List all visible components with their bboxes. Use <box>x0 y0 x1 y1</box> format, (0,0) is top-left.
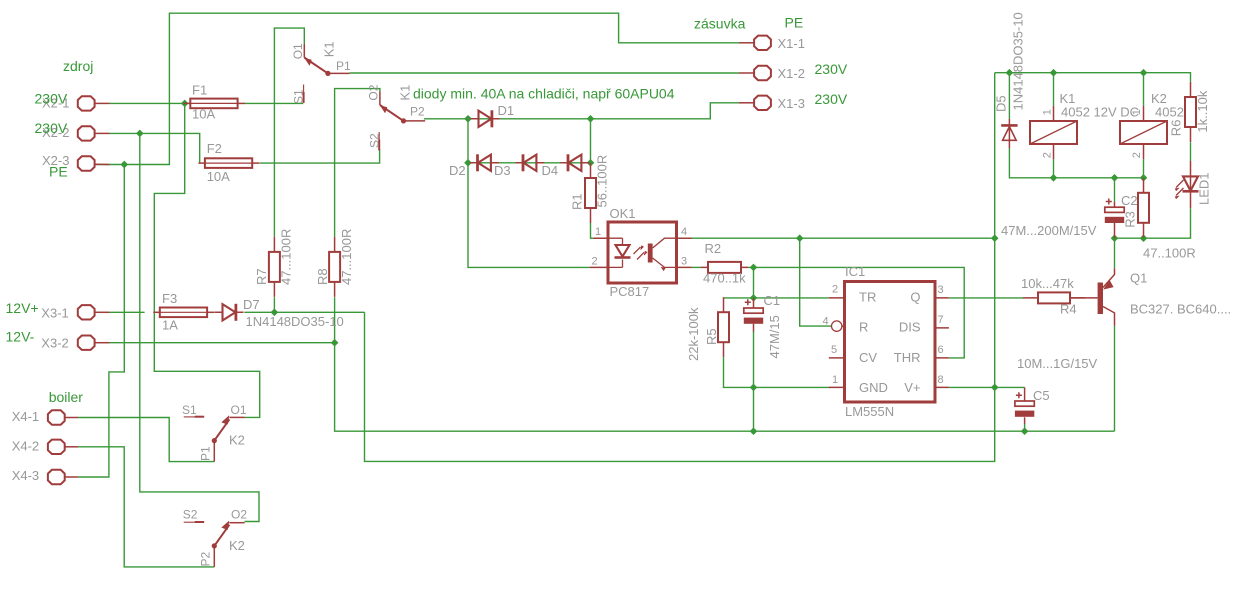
wire R5 top link <box>724 297 754 299</box>
junction at 139.8,133.4 <box>136 130 144 138</box>
svg-text:K2: K2 <box>229 433 245 448</box>
connector X2-2 <box>78 126 95 140</box>
fuse F3 <box>153 308 214 318</box>
svg-text:P2: P2 <box>199 551 213 566</box>
svg-text:230V: 230V <box>815 61 848 77</box>
junction at 753.5,267.4 <box>750 264 758 272</box>
relay contact K1 S1 <box>304 44 350 103</box>
svg-text:Q1: Q1 <box>1130 271 1147 286</box>
svg-text:K1: K1 <box>322 41 337 57</box>
junction at 1009.4,72.7 <box>1006 69 1014 77</box>
connector X1-2 <box>754 66 771 80</box>
wire C1 bottom to GND row and 12V- rail <box>753 331 755 431</box>
svg-text:47M/15: 47M/15 <box>767 315 782 358</box>
resistor R7 <box>269 237 280 297</box>
wire +12 to IC1 pin4 R <box>800 238 832 326</box>
junction at 1143.5,238.2 <box>1140 234 1148 242</box>
relay contact K1 S2 <box>379 92 425 151</box>
junction at 753.5,297.9 <box>750 294 758 302</box>
junction at 799.7,238.2 <box>796 234 804 242</box>
optocoupler OK1 PC817 <box>590 222 692 283</box>
svg-text:D3: D3 <box>494 163 511 178</box>
svg-text:D1: D1 <box>498 103 515 118</box>
svg-text:3: 3 <box>938 284 944 296</box>
svg-text:10A: 10A <box>207 169 230 184</box>
connector X4-1 <box>48 410 65 424</box>
wire K1 coil top <box>1053 73 1055 106</box>
wire +12 to C5 <box>995 386 1025 388</box>
capacitor C5 <box>1015 392 1034 417</box>
svg-text:X3-1: X3-1 <box>41 306 68 321</box>
connector X4-2 <box>48 440 65 454</box>
svg-text:22k-100k: 22k-100k <box>686 307 701 361</box>
junction at 1114.5,177.8 <box>1111 174 1119 182</box>
wire C2 bottom / Q1 top lead <box>1114 238 1116 268</box>
wire F1 to K1 S1 contact <box>245 102 304 104</box>
svg-text:4: 4 <box>823 315 829 327</box>
wire C5 bottom to rail <box>1024 424 1026 431</box>
wire K1 S1 P1 to X1-2 <box>350 72 739 74</box>
wire IC1 pin3 Q output to R4 <box>949 297 1023 299</box>
svg-text:S1: S1 <box>182 403 197 417</box>
pin X1-1 <box>739 42 754 44</box>
pin X4-1 <box>65 417 78 419</box>
wire R2 to THR of IC1 <box>748 267 964 358</box>
svg-text:7: 7 <box>938 314 944 326</box>
connector X1-1 <box>754 36 771 50</box>
resistor R5 <box>718 297 729 357</box>
wire R1 bottom to OK1 pin1 <box>591 223 594 238</box>
svg-text:4: 4 <box>681 226 687 238</box>
wire K1 S2 O2 over to R8 <box>335 89 380 237</box>
wire OK1 pin4 to +12 vertical <box>692 237 995 239</box>
relay contact K2 S1 <box>184 416 245 462</box>
wire D5 bottom to coil rail <box>1009 148 1143 178</box>
wire K1 S2 P2 to diode bridge and X1-3 <box>424 103 739 119</box>
svg-text:zdroj: zdroj <box>63 58 93 74</box>
svg-text:S1: S1 <box>292 89 306 104</box>
resistor R2 <box>701 262 749 273</box>
svg-text:230V: 230V <box>35 90 68 106</box>
junction at 753.5,387.4 <box>750 384 758 392</box>
wire X2-1 to F1 junction <box>110 102 185 104</box>
svg-text:1: 1 <box>832 374 838 386</box>
svg-text:S2: S2 <box>368 133 382 148</box>
svg-text:F2: F2 <box>207 141 222 156</box>
svg-text:470..1k: 470..1k <box>703 271 746 286</box>
svg-text:X4-1: X4-1 <box>12 409 39 424</box>
svg-text:R7: R7 <box>254 268 269 285</box>
junction at 1114.5,238.2 <box>1111 234 1119 242</box>
wire X2-2 branch to K2 S2 O2 contact <box>140 133 259 521</box>
pin X1-2 <box>739 72 754 74</box>
svg-text:IC1: IC1 <box>845 264 865 279</box>
svg-text:X4-3: X4-3 <box>12 468 39 483</box>
wire +12V main vertical down to 12V+ input <box>365 73 995 462</box>
svg-text:D4: D4 <box>542 163 559 178</box>
svg-text:O2: O2 <box>367 84 381 100</box>
connector X1-3 <box>754 96 771 110</box>
svg-text:GND: GND <box>859 380 888 395</box>
wire R6 bottom to LED1 <box>1190 142 1192 161</box>
wire X4-2 to K2 S2 P2 <box>78 447 214 567</box>
junction at 994.7,238.2 <box>991 234 999 242</box>
svg-text:47...100R: 47...100R <box>339 229 354 285</box>
wire junction col down to TR row <box>753 267 755 298</box>
pin X2-1 <box>95 102 110 104</box>
pin X3-1 <box>95 311 110 313</box>
junction at 1053.5,177.8 <box>1050 174 1058 182</box>
svg-text:TR: TR <box>859 290 876 305</box>
wire R7 bottom to 12V+ line <box>273 297 275 312</box>
capacitor C2 <box>1105 199 1124 224</box>
svg-text:diody min. 40A na chladiči, na: diody min. 40A na chladiči, např 60APU04 <box>413 86 675 102</box>
junction at 1143.5,177.8 <box>1140 174 1148 182</box>
connector X3-2 <box>78 336 95 350</box>
wire bridge left down to OK1 pin2 <box>468 163 590 268</box>
junction at 590.5,118.8 <box>587 115 595 123</box>
wire 12V- ground rail <box>335 343 1115 432</box>
wire R8 bottom to 12V- line <box>334 297 336 343</box>
svg-text:BC327. BC640....: BC327. BC640.... <box>1130 302 1231 317</box>
svg-text:12V+: 12V+ <box>6 300 39 316</box>
svg-text:X4-2: X4-2 <box>12 438 39 453</box>
svg-text:X3-2: X3-2 <box>41 336 68 351</box>
wire D4 junction down to R1 <box>590 162 592 164</box>
resistor R1 <box>585 163 596 223</box>
svg-text:4052: 4052 <box>1155 105 1184 120</box>
wire D2 row base <box>468 162 591 164</box>
LED LED1 <box>1175 161 1199 208</box>
wire D7 to R7 junction to +12 riser <box>244 311 364 313</box>
svg-text:230V: 230V <box>815 91 848 107</box>
resistor R3 <box>1138 178 1149 238</box>
svg-text:F1: F1 <box>192 83 207 98</box>
svg-text:O1: O1 <box>291 43 305 59</box>
svg-text:X1-1: X1-1 <box>778 36 805 51</box>
svg-text:CV: CV <box>859 350 877 365</box>
diode D3 <box>515 154 544 171</box>
svg-text:D2: D2 <box>449 163 466 178</box>
svg-text:1A: 1A <box>162 318 178 333</box>
wire K1 coil bottom <box>1053 159 1055 178</box>
svg-text:THR: THR <box>894 350 921 365</box>
svg-text:47...100R: 47...100R <box>279 229 294 285</box>
pin X2-2 <box>95 132 110 134</box>
resistor R8 <box>329 237 340 297</box>
svg-text:C2: C2 <box>1121 193 1138 208</box>
resistor R4 <box>1023 292 1085 303</box>
wire K2 coil top <box>1143 73 1145 106</box>
junction at 184.7,103.4 <box>181 100 189 108</box>
connector X4-3 <box>48 470 65 484</box>
junction at 334.6,342.7 <box>331 339 339 347</box>
wire R5 bottom to IC1 pin1 GND <box>724 357 831 387</box>
pin X4-3 <box>65 476 78 478</box>
svg-text:10A: 10A <box>192 107 215 122</box>
relay coil K2 <box>1120 106 1167 159</box>
svg-text:2: 2 <box>1042 152 1054 158</box>
svg-text:10M...1G/15V: 10M...1G/15V <box>1017 356 1098 371</box>
svg-text:R4: R4 <box>1060 302 1077 317</box>
junction at 1024.6,431.2 <box>1021 427 1029 435</box>
wire F1 output down to K2 S1 O1 contact <box>154 103 259 417</box>
diode D7 <box>215 304 244 321</box>
diode D2 <box>470 154 499 171</box>
svg-text:X1-2: X1-2 <box>778 66 805 81</box>
svg-text:5: 5 <box>831 344 837 356</box>
svg-text:1N4148DO35-10: 1N4148DO35-10 <box>1011 12 1026 110</box>
svg-text:R2: R2 <box>705 241 722 256</box>
svg-text:D5: D5 <box>994 95 1009 112</box>
svg-text:DIS: DIS <box>899 320 921 335</box>
svg-text:4052 12V DC: 4052 12V DC <box>1061 105 1139 120</box>
svg-text:S2: S2 <box>183 507 198 521</box>
svg-text:47..100R: 47..100R <box>1143 246 1196 261</box>
svg-text:6: 6 <box>938 344 944 356</box>
wire OK1 pin3 to R2 <box>692 266 701 268</box>
junction at 124.3,164.5 <box>120 161 128 169</box>
connector X2-3 <box>78 156 95 170</box>
svg-text:12V-: 12V- <box>6 329 35 345</box>
junction at 1143.5,72.7 <box>1140 69 1148 77</box>
wire X4-1 to K2 S1 P1 <box>78 418 214 462</box>
pin X4-2 <box>65 446 78 448</box>
svg-text:47M...200M/15V: 47M...200M/15V <box>1001 223 1097 238</box>
svg-text:PE: PE <box>49 164 68 180</box>
wire K2 coil bottom <box>1143 159 1145 178</box>
svg-text:O2: O2 <box>231 507 247 521</box>
svg-text:C5: C5 <box>1033 388 1050 403</box>
wire PE branch down to X4-3 <box>78 165 124 478</box>
wire PE net: X2-3 to top rail to X1-1 <box>95 13 739 164</box>
svg-text:zásuvka: zásuvka <box>694 16 746 32</box>
svg-text:1: 1 <box>1131 109 1143 115</box>
svg-text:R5: R5 <box>704 328 719 345</box>
svg-text:1: 1 <box>1042 109 1054 115</box>
svg-text:C1: C1 <box>764 293 781 308</box>
wire TR row to IC1 pin2 <box>754 297 829 299</box>
connector X3-1 <box>78 305 95 319</box>
svg-text:R: R <box>859 320 868 335</box>
pin X1-3 <box>739 102 754 104</box>
resistor R6 <box>1185 82 1196 142</box>
relay contact K2 S2 <box>184 521 245 567</box>
junction at 274.4,312.3 <box>271 308 279 316</box>
svg-text:1N4148DO35-10: 1N4148DO35-10 <box>246 314 344 329</box>
diode D1 <box>471 110 500 127</box>
svg-text:K1: K1 <box>398 85 413 101</box>
capacitor C1 <box>744 299 763 324</box>
svg-text:R1: R1 <box>570 193 585 210</box>
svg-text:1: 1 <box>595 226 601 238</box>
svg-text:D7: D7 <box>243 297 260 312</box>
wire IC1 pin8 V+ to +12 vertical <box>949 386 995 388</box>
svg-text:V+: V+ <box>904 380 920 395</box>
svg-text:230V: 230V <box>35 120 68 136</box>
fuse F2 <box>198 158 259 168</box>
svg-text:R6: R6 <box>1169 120 1184 137</box>
svg-text:P1: P1 <box>199 446 213 461</box>
svg-text:2: 2 <box>1131 152 1143 158</box>
svg-text:3: 3 <box>681 255 687 267</box>
connector X2-1 <box>78 96 95 110</box>
svg-text:X1-3: X1-3 <box>778 96 805 111</box>
wire X3-1 12V+ to F3 <box>110 311 145 313</box>
svg-text:F3: F3 <box>162 291 177 306</box>
svg-text:1k..10k: 1k..10k <box>1195 90 1210 132</box>
wire C2 top <box>1114 178 1116 202</box>
junction at 1053.5,72.7 <box>1050 69 1058 77</box>
svg-text:2: 2 <box>832 284 838 296</box>
junction at 468,118.8 <box>464 115 472 123</box>
wire X3-2 12V- line <box>110 342 335 344</box>
svg-text:LM555N: LM555N <box>845 404 894 419</box>
wire Q1 emitter down to rail <box>1114 326 1116 431</box>
pin X3-2 <box>95 342 110 344</box>
wire top +12 rail <box>995 73 1191 82</box>
svg-text:P1: P1 <box>336 59 351 73</box>
svg-text:56..100R: 56..100R <box>595 155 610 208</box>
junction at 753.5,431.2 <box>750 427 758 435</box>
svg-text:K2: K2 <box>229 538 245 553</box>
svg-text:O1: O1 <box>231 403 247 417</box>
wire F2 to K1 S2 contact <box>260 150 380 164</box>
IC U/IC1 LM555N <box>829 282 949 403</box>
transistor Q1 <box>1070 268 1115 326</box>
svg-text:boiler: boiler <box>49 389 84 405</box>
svg-text:PE: PE <box>785 15 804 31</box>
junction at 590.5,162.8 <box>587 159 595 167</box>
wire LED1 bottom to emitter rail <box>1115 208 1191 238</box>
svg-text:P2: P2 <box>410 105 425 119</box>
wire diode bridge left vertical <box>467 119 469 163</box>
relay coil K1 <box>1030 106 1077 159</box>
pin X2-3 <box>95 163 110 165</box>
svg-text:2: 2 <box>592 255 598 267</box>
svg-text:R3: R3 <box>1123 211 1138 228</box>
svg-text:Q: Q <box>910 290 920 305</box>
svg-text:8: 8 <box>938 374 944 386</box>
svg-text:OK1: OK1 <box>610 206 636 221</box>
wire X2-2 to F2 <box>110 133 200 163</box>
wire diode bridge right vertical <box>590 119 592 163</box>
wire D5 top <box>1008 73 1010 119</box>
svg-text:LED1: LED1 <box>1197 172 1212 205</box>
svg-text:10k...47k: 10k...47k <box>1021 276 1074 291</box>
svg-text:PC817: PC817 <box>610 284 650 299</box>
wire K1 S1 O1 up-over to R7 <box>274 28 304 237</box>
junction at 468,162.8 <box>464 159 472 167</box>
svg-text:R8: R8 <box>315 268 330 285</box>
junction at 994.7,387.4 <box>991 384 999 392</box>
diode D4 <box>560 154 589 171</box>
diode D5 <box>1001 119 1017 148</box>
fuse F1 <box>184 99 245 109</box>
